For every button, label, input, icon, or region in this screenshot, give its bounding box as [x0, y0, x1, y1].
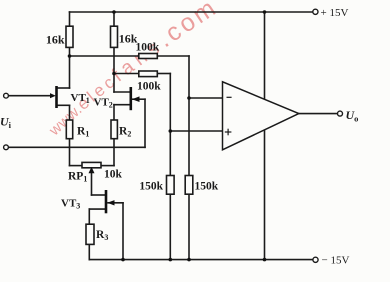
svg-text:100k: 100k	[137, 80, 161, 92]
svg-text:10k: 10k	[104, 169, 123, 181]
svg-text:150k: 150k	[195, 181, 219, 193]
svg-text:150k: 150k	[139, 181, 163, 193]
svg-text:+ 15V: + 15V	[321, 7, 349, 19]
svg-text:100k: 100k	[136, 42, 160, 54]
svg-text:16k: 16k	[46, 33, 65, 47]
svg-text:− 15V: − 15V	[322, 255, 350, 267]
